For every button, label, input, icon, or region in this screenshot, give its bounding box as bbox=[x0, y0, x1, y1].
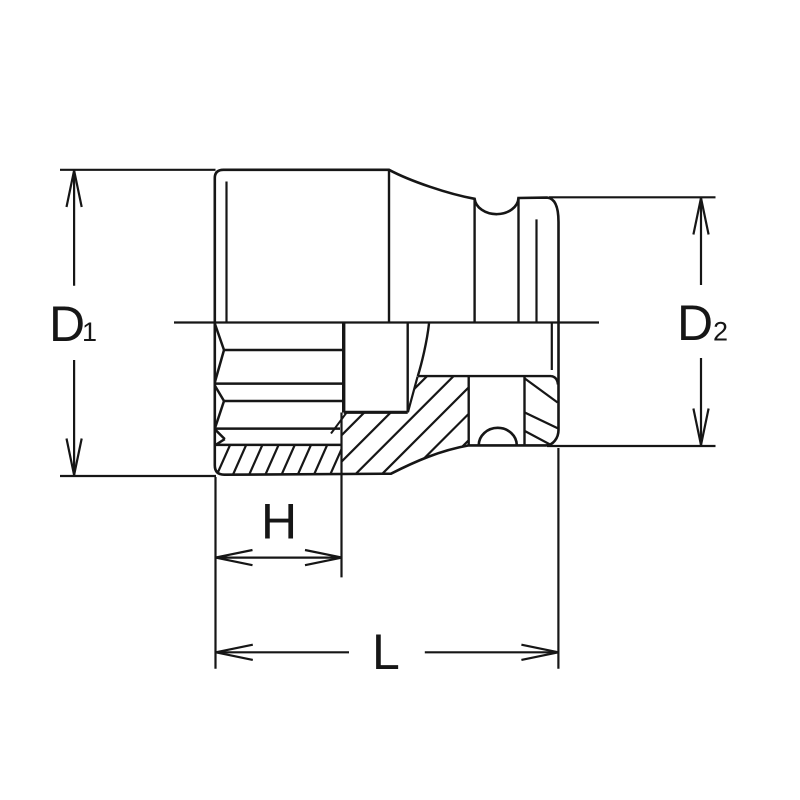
12pt facet diagonal 2 bbox=[215, 350, 224, 383]
neck corner vertical line bbox=[388, 170, 390, 323]
12pt facet diagonal 1 bbox=[215, 324, 224, 351]
hatch right triangle bbox=[525, 379, 558, 446]
L dimension line left bbox=[216, 651, 349, 653]
socket body upper outline bbox=[215, 170, 559, 323]
pin pocket right edge bbox=[523, 376, 525, 445]
D2 dimension line upper bbox=[700, 198, 702, 285]
D2 arrow up bbox=[693, 198, 708, 235]
hatch middle region bbox=[265, 368, 541, 485]
D1 arrow down bbox=[67, 439, 82, 476]
12pt facet line 3 bbox=[224, 400, 343, 403]
groove right edge vertical bbox=[517, 198, 519, 323]
svg-text:D: D bbox=[677, 295, 713, 351]
square hole right wall bbox=[407, 323, 409, 413]
drive hole inner short line bbox=[551, 323, 553, 371]
square hole left wall (thick) bbox=[342, 323, 345, 413]
12pt facet small V diagonal a bbox=[215, 430, 224, 439]
L dimension line right bbox=[425, 651, 559, 653]
H arrow left bbox=[216, 550, 253, 565]
12pt facet line 1 bbox=[224, 349, 343, 352]
centerline bbox=[174, 321, 599, 323]
D1 dimension line upper bbox=[73, 171, 75, 286]
H left extension line bbox=[214, 477, 216, 669]
svg-text:2: 2 bbox=[713, 317, 728, 347]
D1 bottom extension line bbox=[60, 475, 216, 477]
D2 dimension line lower bbox=[700, 358, 702, 445]
L right extension line bbox=[557, 448, 559, 669]
groove left edge vertical bbox=[473, 199, 475, 323]
left chamfer inner line bbox=[225, 182, 227, 323]
drive hole bottom right corner bbox=[551, 376, 558, 384]
svg-text:D: D bbox=[49, 296, 85, 352]
L arrow right bbox=[521, 645, 558, 660]
H arrow right bbox=[305, 550, 342, 565]
12pt facet bottom line bbox=[215, 444, 342, 447]
hatch left band bbox=[215, 444, 360, 478]
right chamfer inner line bbox=[535, 219, 537, 322]
svg-text:1: 1 bbox=[82, 317, 97, 347]
pin pocket left edge bbox=[468, 376, 470, 445]
hatch boundary diagonal bbox=[408, 377, 418, 413]
D2 arrow down bbox=[693, 409, 708, 446]
12pt facet line 2 bbox=[215, 382, 343, 385]
D1 dimension line lower bbox=[73, 360, 75, 475]
square hole bottom wall (thick) bbox=[344, 411, 408, 414]
pin hole dome arc bbox=[479, 428, 517, 446]
D2 top extension line bbox=[549, 196, 716, 198]
svg-text:L: L bbox=[372, 624, 400, 680]
H right extension line bbox=[340, 413, 342, 578]
12pt facet diagonal 4 bbox=[215, 401, 224, 428]
D1 arrow up bbox=[67, 171, 82, 208]
12pt facet line 4 bbox=[216, 427, 341, 430]
socket body lower outline bbox=[215, 323, 559, 475]
D2 bottom extension line bbox=[547, 445, 716, 447]
L arrow left bbox=[216, 645, 253, 660]
H dimension line bbox=[216, 556, 343, 558]
stray hatch line left of H extension bbox=[331, 412, 347, 433]
12pt facet small V diagonal b bbox=[215, 439, 224, 445]
D1 top extension line bbox=[60, 169, 216, 171]
svg-text:H: H bbox=[261, 494, 297, 550]
12pt facet diagonal 3 bbox=[215, 386, 224, 402]
drive hole bottom line bbox=[418, 375, 551, 377]
square hole corner curve bbox=[418, 324, 429, 377]
